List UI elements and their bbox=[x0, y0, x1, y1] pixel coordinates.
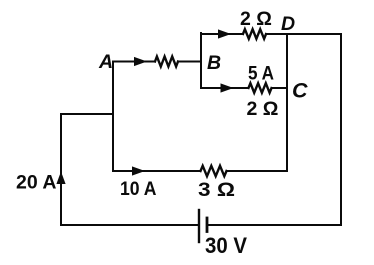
svg-text:B: B bbox=[207, 52, 221, 74]
svg-text:2 Ω: 2 Ω bbox=[240, 8, 272, 30]
wire A vertical down bbox=[112, 62, 114, 172]
resistor (unlabeled) between A and B bbox=[155, 57, 178, 67]
wire bottom left to battery bbox=[61, 224, 199, 226]
wire left feed horizontal bbox=[61, 113, 113, 115]
svg-text:A: A bbox=[98, 51, 113, 73]
svg-text:D: D bbox=[281, 13, 295, 35]
svg-text:30 V: 30 V bbox=[205, 233, 247, 258]
wire left vertical with 20A bbox=[60, 114, 62, 225]
current arrow on middle branch (5A) bbox=[221, 83, 234, 92]
resistor R 2-ohm top branch bbox=[243, 29, 266, 39]
battery 30V long plate bbox=[198, 210, 200, 242]
wire A to B horizontal segment bbox=[113, 61, 155, 63]
wire bottom battery to right bbox=[207, 224, 341, 226]
svg-text:2 Ω: 2 Ω bbox=[247, 98, 279, 120]
resistor R 2-ohm middle branch bbox=[249, 83, 272, 93]
wire B vertical segment bbox=[200, 33, 202, 88]
svg-text:C: C bbox=[292, 79, 308, 103]
wire vertical D through C down to bottom branch bbox=[286, 34, 288, 171]
current arrow on bottom branch (10A) bbox=[132, 166, 145, 175]
svg-text:5 A: 5 A bbox=[248, 63, 274, 85]
battery 30V short plate bbox=[206, 218, 209, 232]
current arrow on top branch bbox=[218, 29, 231, 38]
wire bottom branch with 3-ohm bbox=[113, 170, 201, 172]
wire right vertical from D to bottom bbox=[340, 34, 342, 225]
svg-text:10 A: 10 A bbox=[120, 178, 157, 200]
wire middle branch B to C bbox=[201, 87, 249, 89]
current arrow 20A pointing up on left wire bbox=[56, 172, 65, 185]
resistor R 3-ohm bottom branch bbox=[201, 166, 227, 176]
svg-text:3 Ω: 3 Ω bbox=[198, 179, 235, 201]
current arrow on A-B wire bbox=[134, 57, 147, 66]
wire top branch B to D bbox=[201, 33, 243, 35]
svg-text:20 A: 20 A bbox=[16, 172, 56, 194]
